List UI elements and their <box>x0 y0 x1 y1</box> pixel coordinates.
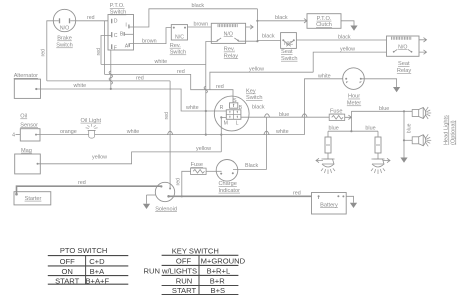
svg-text:Clutch: Clutch <box>316 22 332 28</box>
wire: brake switch left lead down <box>47 21 54 81</box>
svg-text:white: white <box>154 59 168 65</box>
wire: mag to key M riser, yellow <box>38 152 222 164</box>
arrow: tail lamp left beam <box>316 158 323 162</box>
svg-text:brown: brown <box>142 38 157 44</box>
wire: white run to rev relay drop, white <box>101 63 206 65</box>
svg-text:red: red <box>164 112 170 120</box>
svg-text:Oil: Oil <box>20 114 27 120</box>
wire: solenoid case to ground <box>147 194 156 196</box>
PTO switch pin A <box>129 43 130 47</box>
svg-text:M+GROUND: M+GROUND <box>201 257 246 266</box>
svg-text:red: red <box>177 69 185 75</box>
tail lamp left bulb <box>322 158 335 160</box>
PTO switch pin I <box>128 25 129 29</box>
svg-text:white: white <box>73 83 87 89</box>
rev relay K1 <box>211 23 245 43</box>
PTO switch S1 <box>108 15 134 51</box>
svg-text:black: black <box>275 15 288 21</box>
wire: headlight 2 feed <box>403 139 405 141</box>
solenoid SOL <box>155 182 174 201</box>
wire: grid to M riser <box>221 116 226 118</box>
svg-text:S: S <box>233 98 237 104</box>
charge indicator M3 <box>216 160 238 182</box>
wire: starter cable to solenoid, red <box>17 186 162 194</box>
oil light lamp symbol <box>89 130 95 138</box>
starter MT1 <box>14 192 51 205</box>
hour meter M1 <box>343 68 365 90</box>
wire: rev relay bottom-right pin to black node <box>238 40 257 42</box>
svg-text:M: M <box>224 121 228 127</box>
svg-text:red: red <box>293 190 301 196</box>
wire: PTO F down with connector squiggles <box>110 50 112 89</box>
svg-text:Oil Light: Oil Light <box>81 118 102 124</box>
wire: PTO clutch to chassis ground <box>341 21 354 26</box>
svg-text:L: L <box>236 121 239 127</box>
svg-text:white: white <box>275 129 289 135</box>
svg-text:START: START <box>55 276 80 285</box>
wire: lights bus riser <box>350 111 352 131</box>
wire: battery to chassis ground <box>346 196 353 203</box>
svg-text:Mag: Mag <box>21 148 32 154</box>
svg-text:yellow: yellow <box>340 46 355 52</box>
wire: brake red to solenoid bus, red <box>47 80 170 82</box>
svg-text:Head Lights: Head Lights <box>444 115 450 145</box>
svg-text:C: C <box>114 33 118 39</box>
svg-text:D: D <box>114 18 118 24</box>
svg-text:Indicator: Indicator <box>219 188 241 194</box>
svg-text:orange: orange <box>60 129 77 135</box>
svg-text:(Optional): (Optional) <box>451 120 457 145</box>
arrow: seat relay output bottom <box>419 50 427 54</box>
svg-text:red: red <box>96 48 102 56</box>
rev switch S2 <box>171 25 187 40</box>
node: PTO clutch branch <box>256 20 258 22</box>
wire: solenoid to battery, red <box>168 195 312 197</box>
wire: PTO I up to black bus, black <box>130 9 258 27</box>
svg-text:red: red <box>136 76 144 82</box>
wire: headlight ground drop <box>403 140 405 157</box>
svg-text:N/O: N/O <box>224 31 233 37</box>
svg-text:ON: ON <box>62 267 73 276</box>
PTO switch pin F <box>111 44 112 49</box>
wire: charge indicator to black riser, black <box>233 169 267 171</box>
headlight 2 <box>412 137 419 144</box>
wire: PTO C to white run <box>101 36 112 65</box>
svg-text:Brake: Brake <box>57 36 72 42</box>
tail lamp right: drop + base <box>377 131 379 137</box>
wire: solenoid bus down, red <box>169 81 171 188</box>
node: black junction <box>256 40 258 42</box>
svg-text:B: B <box>120 32 124 38</box>
wire: PTO A to rev switch, brown <box>130 28 172 44</box>
wire: yellow top run to seat relay riser <box>210 72 313 90</box>
battery BT1 <box>312 193 347 215</box>
svg-text:blue: blue <box>379 106 389 112</box>
svg-text:Relay: Relay <box>224 53 239 59</box>
PTO switch pin B <box>124 32 125 36</box>
wire: white bottom run, oil light to hour meter riser <box>95 134 305 136</box>
svg-text:Alternator: Alternator <box>14 73 38 79</box>
svg-text:R: R <box>220 105 224 111</box>
wire: headlight feed, blue <box>351 110 412 112</box>
arrow: seat relay output top <box>419 38 427 42</box>
svg-text:yellow: yellow <box>196 146 211 152</box>
svg-text:Switch: Switch <box>56 43 72 49</box>
svg-text:B+S: B+S <box>211 286 226 295</box>
svg-text:Battery: Battery <box>320 202 338 208</box>
wire: red feed to key switch S, red <box>105 74 234 102</box>
wire: yellow riser <box>220 135 222 152</box>
svg-text:Switch: Switch <box>281 56 297 62</box>
oil sensor B1 <box>20 129 40 141</box>
svg-text:white: white <box>185 105 199 111</box>
wire: headlight riser, blue <box>403 111 405 140</box>
headlight 1 <box>412 110 419 117</box>
svg-text:Switch: Switch <box>170 50 186 56</box>
svg-text:red: red <box>176 178 182 186</box>
svg-text:B: B <box>239 105 243 111</box>
svg-text:white: white <box>126 129 140 135</box>
wire: hour meter to chassis ground <box>361 79 397 87</box>
arrow: fuse to lights node <box>345 115 352 119</box>
svg-text:Sensor: Sensor <box>20 122 38 128</box>
svg-text:white: white <box>317 74 331 80</box>
svg-text:Fuse: Fuse <box>330 109 342 115</box>
wire: tail lamp run, blue <box>328 130 378 132</box>
svg-text:N/O: N/O <box>60 25 69 31</box>
svg-text:Starter: Starter <box>25 196 42 202</box>
svg-text:black: black <box>262 34 275 40</box>
svg-text:Rev.: Rev. <box>170 43 182 49</box>
svg-text:P.T.O.: P.T.O. <box>110 3 125 9</box>
svg-text:red: red <box>87 15 95 21</box>
svg-text:blue: blue <box>329 125 339 131</box>
arrow: tail lamp right beam <box>383 158 390 162</box>
alternator G1 <box>14 79 40 98</box>
svg-text:C+D: C+D <box>89 257 105 266</box>
svg-text:RUN: RUN <box>176 277 192 286</box>
node: headlight tee <box>403 110 405 112</box>
svg-text:blue: blue <box>365 125 375 131</box>
wire: yellow riser to seat relay <box>313 52 386 72</box>
tail lamp right bulb <box>372 158 385 160</box>
wire: brake switch to PTO switch pin D, red <box>76 20 109 22</box>
wire: to seat switch, black <box>257 39 280 41</box>
wire: key switch B to fuse, blue <box>241 116 329 118</box>
svg-text:I: I <box>125 23 126 29</box>
svg-text:Hour: Hour <box>348 94 360 100</box>
fuse F2 (charge circuit) <box>191 168 207 174</box>
wire: white bus down <box>205 64 207 134</box>
wire: seat switch to seat relay, black <box>296 39 386 41</box>
svg-text:Seat: Seat <box>281 49 293 55</box>
svg-text:RUN w/LIGHTS: RUN w/LIGHTS <box>144 267 198 276</box>
wire: brake/D drop <box>104 21 106 75</box>
svg-text:OFF: OFF <box>176 257 192 266</box>
key switch contact grid <box>226 110 241 120</box>
svg-text:red: red <box>78 180 86 186</box>
svg-text:yellow: yellow <box>249 67 264 73</box>
svg-text:Meter: Meter <box>347 101 361 107</box>
svg-text:B+R+L: B+R+L <box>207 267 231 276</box>
svg-text:P.T.O.: P.T.O. <box>317 16 332 22</box>
svg-text:Switch: Switch <box>246 95 262 101</box>
arrow: rev relay output <box>246 25 254 29</box>
svg-text:Switch: Switch <box>110 10 126 16</box>
wire: rev relay bottom-left pin to white bus <box>206 42 218 65</box>
svg-text:KEY SWITCH: KEY SWITCH <box>172 246 219 255</box>
wire: fuse left drop to battery cable, red <box>182 171 191 196</box>
svg-text:red: red <box>41 49 47 57</box>
svg-text:blue: blue <box>406 123 412 133</box>
svg-text:PTO SWITCH: PTO SWITCH <box>60 246 108 255</box>
svg-text:F: F <box>114 46 117 52</box>
key switch S4 <box>214 96 249 131</box>
mag M2 <box>15 154 41 174</box>
key switch S terminal <box>230 103 238 108</box>
fuse F1 (lights) <box>329 114 345 120</box>
svg-text:black: black <box>192 3 205 9</box>
svg-text:START: START <box>172 286 197 295</box>
svg-text:black: black <box>338 35 351 41</box>
svg-text:red: red <box>216 84 224 90</box>
PTO clutch CL1 <box>307 14 341 29</box>
svg-text:Rev.: Rev. <box>224 47 236 53</box>
svg-text:B+A: B+A <box>90 267 105 276</box>
svg-text:N/C: N/C <box>175 35 184 41</box>
svg-text:Solenoid: Solenoid <box>155 206 177 212</box>
svg-text:4: 4 <box>12 132 15 138</box>
svg-text:Key: Key <box>246 89 256 95</box>
wire: alternator to key switch R, white <box>36 89 226 111</box>
svg-text:B+R: B+R <box>210 277 225 286</box>
svg-text:Black: Black <box>245 163 258 169</box>
wire: to PTO clutch with arrow, black <box>257 20 300 22</box>
svg-text:Charge: Charge <box>219 181 237 187</box>
svg-text:brown: brown <box>194 22 209 28</box>
svg-text:blue: blue <box>279 112 289 118</box>
svg-text:N/O: N/O <box>398 44 407 50</box>
wire: hour meter riser, white <box>305 79 343 135</box>
PTO switch pin D <box>111 19 112 24</box>
svg-text:Relay: Relay <box>397 68 412 74</box>
wire: black riser to charge indicator <box>266 117 268 169</box>
wire: oil sensor to oil light, orange <box>36 134 89 136</box>
svg-text:B+A+F: B+A+F <box>85 276 109 285</box>
svg-text:yellow: yellow <box>92 155 107 161</box>
seat switch S3 <box>281 33 297 49</box>
svg-text:black: black <box>252 105 265 111</box>
seat relay K2 <box>387 36 420 56</box>
svg-text:Fuse: Fuse <box>191 162 203 168</box>
wire: black bus down <box>256 9 258 41</box>
wire: rev switch to rev relay, brown <box>188 26 212 28</box>
PTO switch pin C <box>111 32 112 37</box>
svg-text:OFF: OFF <box>60 257 76 266</box>
svg-text:A: A <box>125 43 129 49</box>
tail lamp left: drop + base <box>327 131 329 137</box>
svg-text:Seat: Seat <box>398 61 410 67</box>
wire: fuse to charge indicator <box>206 170 222 172</box>
brake switch BR1 <box>53 9 75 31</box>
